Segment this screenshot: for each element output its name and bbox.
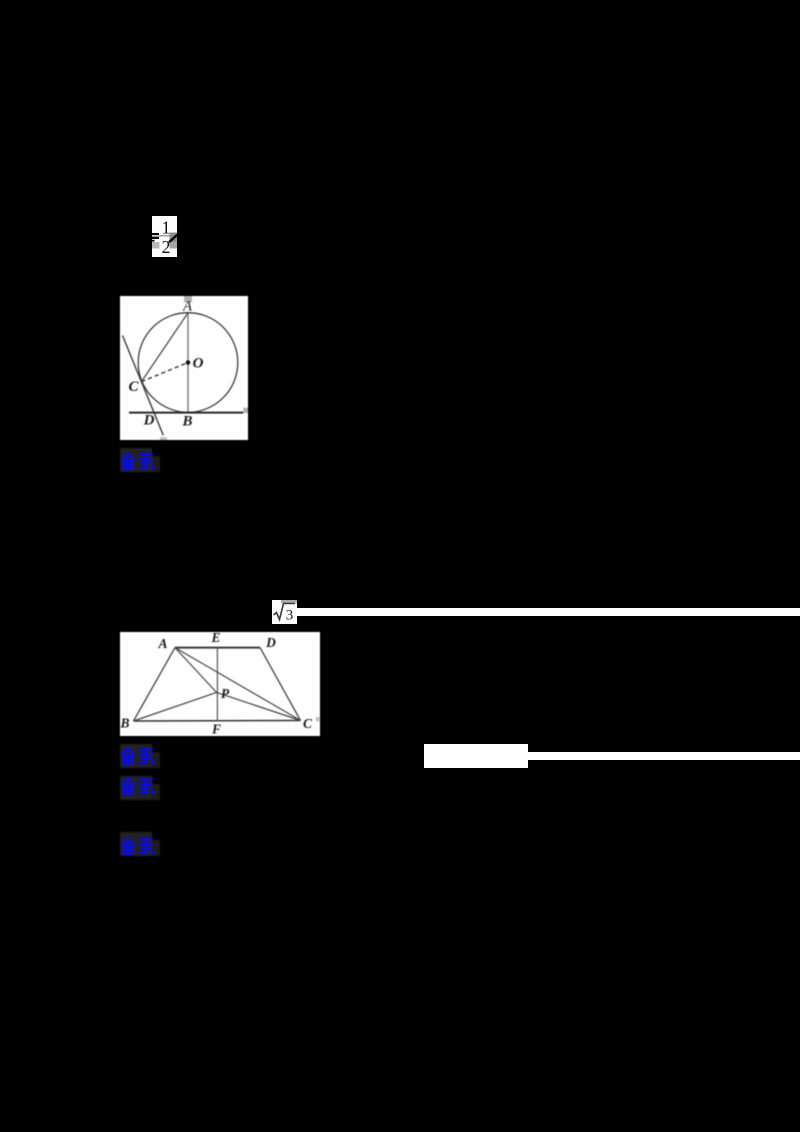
svg-text:A: A: [182, 299, 192, 315]
svg-text:D: D: [265, 635, 276, 650]
side DC: [260, 648, 301, 721]
trapezoid geometry figure image: [120, 632, 320, 736]
sqrt(3) formula image: [272, 600, 297, 624]
svg-text:B: B: [181, 414, 192, 430]
dashed radius CO: [141, 363, 188, 382]
side AB: [134, 648, 176, 721]
svg-text:C: C: [303, 716, 313, 731]
svg-text:E: E: [210, 632, 220, 645]
segment EF: [216, 648, 218, 721]
white rule line 1: [296, 608, 800, 616]
svg-text:A: A: [157, 636, 167, 651]
segment PC: [217, 692, 301, 720]
svg-text:F: F: [211, 722, 221, 737]
blue label 4: [120, 832, 162, 856]
selection handle top: [184, 296, 192, 303]
side AD (top): [175, 647, 260, 649]
bottom tangent line at B: [129, 412, 243, 414]
svg-text:2: 2: [162, 237, 171, 257]
diagonal AC: [175, 648, 301, 721]
selection handle bottom: [160, 437, 167, 440]
svg-text:B: B: [120, 716, 130, 731]
segment AP: [175, 648, 217, 693]
blue label 1: [120, 448, 162, 472]
selection handle right: [243, 408, 248, 413]
white rule line 2: [528, 752, 800, 760]
svg-text:C: C: [128, 379, 139, 395]
white formula box (blank): [424, 744, 528, 769]
tangent line through C and D: [123, 336, 164, 436]
fraction 1/2 formula image: [152, 216, 177, 257]
side BC (bottom): [134, 720, 301, 723]
blue label 2: [120, 744, 162, 768]
center dot O: [186, 360, 191, 365]
svg-text:1: 1: [162, 217, 171, 237]
diameter AB: [187, 313, 189, 413]
segment BP: [134, 692, 217, 721]
svg-text:D: D: [143, 413, 155, 429]
small handle near C: [316, 717, 320, 722]
blue label 3: [120, 776, 162, 800]
circle O: [138, 313, 238, 413]
svg-text:P: P: [221, 686, 230, 701]
svg-text:3: 3: [285, 608, 293, 624]
svg-text:O: O: [193, 356, 204, 372]
circle geometry figure image: [120, 296, 248, 440]
chord AC: [141, 313, 188, 382]
